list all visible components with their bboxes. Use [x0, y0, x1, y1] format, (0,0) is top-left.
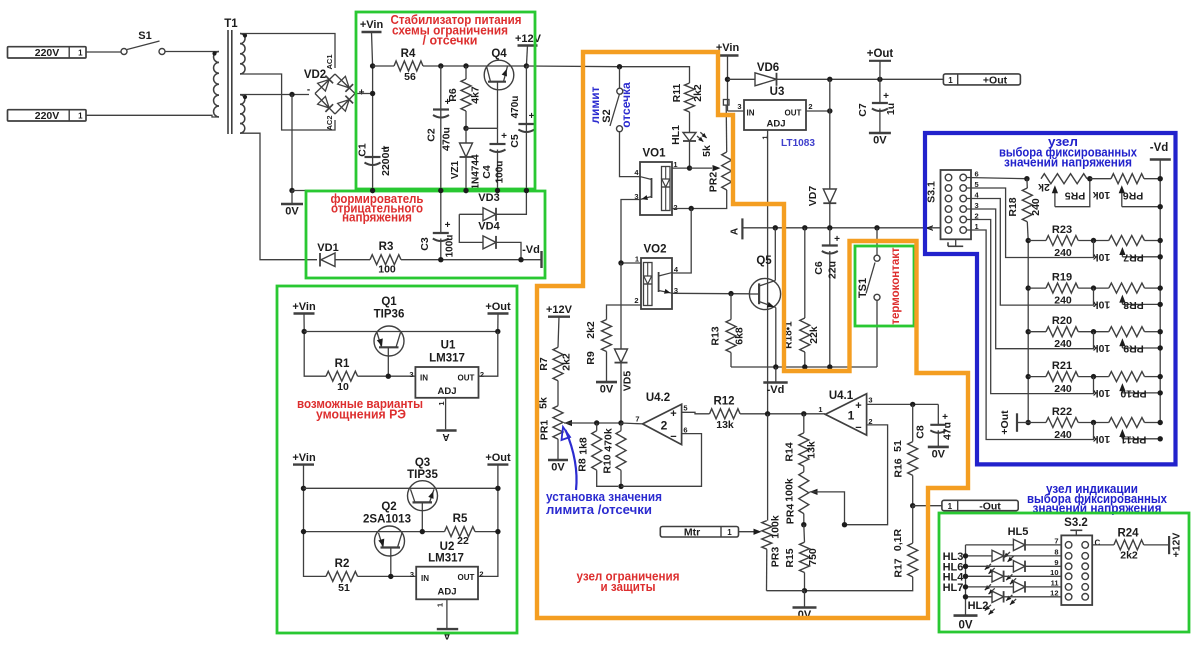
connector Mtr	[660, 527, 738, 538]
node: ADJ/PR3/R12	[765, 411, 770, 416]
svg-text:R8: R8	[577, 458, 589, 472]
svg-text:+12V: +12V	[515, 33, 542, 45]
svg-text:LT1083: LT1083	[781, 137, 815, 149]
svg-text:1: 1	[848, 409, 855, 423]
wire: T1 sec2 bottom down to VD1 line	[240, 133, 317, 260]
svg-text:VD3: VD3	[478, 192, 499, 204]
LED HL1	[689, 112, 691, 133]
net A (U2 ADJ)	[437, 628, 458, 630]
transistor Q1 TIP36	[374, 326, 404, 356]
node: R22 left	[1026, 420, 1031, 425]
svg-text:VD5: VD5	[622, 371, 634, 392]
regulator U1 LM317	[415, 367, 478, 398]
wire: T1 sec2 top to bridge minus	[240, 94, 309, 96]
svg-text:C7: C7	[857, 103, 869, 117]
svg-text:+12V: +12V	[546, 304, 573, 316]
svg-text:100u: 100u	[445, 235, 456, 258]
svg-text:R20: R20	[1052, 315, 1072, 327]
wire: U3 ADJ long vertical	[767, 130, 769, 414]
region outline: green box B (формирователь отрицательного напряжения)	[306, 191, 545, 278]
wire: C2 branch down	[440, 66, 442, 191]
svg-text:VD1: VD1	[317, 242, 338, 254]
svg-text:S1: S1	[138, 30, 151, 42]
svg-text:R3: R3	[379, 241, 394, 253]
svg-text:R18: R18	[1007, 197, 1019, 216]
wire: main rail y66 R4 to +12V stub	[373, 65, 394, 67]
node: R6 top	[463, 63, 468, 68]
LED HL4	[966, 575, 993, 577]
wire: VD3 anode down to VD4	[459, 214, 483, 242]
resistor R15 750	[803, 525, 806, 543]
svg-text:10k: 10k	[1093, 342, 1111, 354]
wire: wiper node to U4.2 out	[621, 422, 643, 425]
svg-text:1k8: 1k8	[578, 437, 590, 455]
node: pin3/R16	[910, 402, 915, 407]
node: C1/0V	[370, 188, 375, 193]
svg-text:C4: C4	[481, 165, 493, 179]
resistor R8 1k8	[596, 423, 598, 431]
svg-text:ADJ: ADJ	[766, 119, 785, 130]
net +Out (blue box)	[1017, 422, 1028, 424]
potentiometer PR4 100k	[803, 466, 805, 472]
wire: VD1 to R3	[335, 259, 370, 261]
potentiometer PR2 5k	[723, 100, 729, 106]
svg-text:PR9: PR9	[1123, 343, 1144, 355]
resistor R17 0,1R	[912, 506, 914, 543]
svg-text:C1: C1	[357, 143, 369, 157]
svg-text:OUT: OUT	[458, 374, 475, 383]
svg-text:PR11: PR11	[1120, 434, 1146, 446]
svg-text:8: 8	[1054, 548, 1058, 557]
transistor Q4	[484, 60, 514, 90]
node: PR10 wiper bus	[1158, 390, 1163, 395]
wire: U2 ADJ stub	[446, 599, 448, 628]
svg-text:A: A	[442, 431, 449, 442]
svg-text:R5: R5	[453, 513, 468, 525]
wire: main rail to S2/R11	[526, 65, 619, 68]
svg-text:10k: 10k	[1093, 251, 1111, 263]
node: PR9 wiper bus	[1158, 345, 1163, 350]
svg-text:умощнения РЭ: умощнения РЭ	[316, 407, 406, 422]
node: VO1.2/PR2 bottom	[689, 206, 694, 211]
node: R21 left	[1026, 374, 1031, 379]
resistor R23 240	[1028, 240, 1046, 242]
wire: +Vin down through R4 node to 0V	[372, 32, 373, 191]
svg-text:220V: 220V	[35, 110, 60, 122]
node: junction sec2/0V	[289, 92, 294, 97]
resistor R5 22	[445, 527, 476, 537]
svg-text:22k: 22k	[808, 326, 820, 344]
connector +Out	[943, 74, 1020, 85]
svg-text:C: C	[1095, 539, 1101, 548]
svg-text:+: +	[834, 234, 840, 245]
svg-text:VD4: VD4	[478, 221, 500, 233]
svg-text:0,1R: 0,1R	[892, 528, 904, 551]
zener VZ1 1N4744	[465, 128, 467, 143]
wire: VO1 pin3 down to VO2 pin1 and VD5	[621, 200, 641, 264]
op-amp U4.1	[825, 394, 866, 435]
connector X2 220V (bottom)	[8, 110, 87, 121]
wire: U3 OUT to riser	[806, 110, 830, 112]
ground 0V (R9)	[606, 352, 608, 383]
svg-text:R4: R4	[401, 48, 416, 60]
wire: bridge + to C1 rail	[355, 93, 373, 95]
svg-text:LM317: LM317	[429, 353, 465, 365]
transistor Q3 TIP35	[408, 481, 438, 511]
svg-text:PR3: PR3	[770, 547, 782, 568]
wire: R20 to PR9	[1078, 331, 1109, 333]
wire: Q5 collector up	[774, 228, 776, 281]
node: +Out/top wire Q1	[495, 329, 500, 334]
svg-text:3: 3	[737, 102, 741, 111]
svg-text:1: 1	[818, 405, 822, 414]
svg-text:2k: 2k	[1038, 181, 1050, 193]
node: C3 / -Vd rail	[438, 257, 443, 262]
svg-text:+: +	[942, 412, 948, 423]
wire: base node horizontal	[466, 127, 498, 129]
wire: +Out stub down	[497, 314, 499, 332]
wire: junction down to 0V ground	[291, 95, 293, 191]
svg-text:U4.2: U4.2	[646, 392, 670, 404]
svg-text:R13: R13	[710, 326, 722, 345]
wire: R22 to PR11	[1078, 422, 1109, 424]
svg-text:100u: 100u	[495, 161, 506, 184]
svg-text:100: 100	[378, 264, 396, 276]
region outline: orange box (узел ограничения и защиты)	[537, 52, 968, 618]
ground 0V (PR1)	[557, 439, 559, 460]
node: R18*1/-Vd	[802, 364, 807, 369]
svg-text:PR10: PR10	[1120, 388, 1146, 400]
svg-text:S3.2: S3.2	[1064, 517, 1088, 529]
node: R23/PR7 mid	[1091, 238, 1096, 243]
svg-text:Q4: Q4	[491, 48, 507, 60]
svg-text:PR1: PR1	[539, 420, 551, 441]
region outline: green box A (Стабилизатор питания)	[356, 12, 535, 189]
potentiometer PR9 10k	[1109, 327, 1145, 337]
S3.1 shell mark	[955, 239, 957, 246]
svg-text:C8: C8	[915, 425, 927, 439]
resistor R11 2k2	[685, 83, 695, 112]
svg-text:1: 1	[78, 112, 83, 121]
svg-text:0V: 0V	[932, 448, 946, 460]
svg-text:−: −	[855, 422, 861, 434]
svg-text:-: -	[307, 85, 310, 96]
svg-text:R12: R12	[713, 396, 734, 408]
capacitor C6 22u	[829, 228, 831, 246]
LED HL6	[966, 565, 1014, 567]
resistor R19 240	[1028, 287, 1046, 289]
svg-text:0V: 0V	[600, 384, 614, 396]
svg-text:IN: IN	[747, 109, 755, 118]
node: R23 right bus	[1158, 238, 1163, 243]
transistor Q2 2SA1013	[375, 526, 405, 556]
node: +Vin/top wire Q1	[302, 329, 307, 334]
svg-text:+12V: +12V	[1171, 533, 1183, 558]
node: R14 node	[801, 411, 806, 416]
svg-text:C2: C2	[426, 128, 438, 142]
resistor R10 470k	[620, 423, 622, 431]
wire: X2 to T1 primary bottom	[86, 115, 219, 117]
svg-text:+: +	[883, 91, 889, 102]
svg-text:-Vd: -Vd	[522, 244, 540, 256]
wire: +Vin left rail Q3/Q2/R2	[304, 465, 327, 577]
ground 0V (C7)	[869, 132, 891, 135]
svg-text:2k2: 2k2	[1120, 550, 1138, 562]
svg-text:3: 3	[410, 570, 414, 579]
svg-text:+Vin: +Vin	[292, 452, 316, 464]
svg-text:10k: 10k	[1093, 189, 1111, 201]
svg-text:3: 3	[674, 286, 678, 295]
svg-text:A: A	[730, 228, 741, 235]
wire: X1 to S1	[87, 51, 122, 53]
wire: U1 ADJ stub to A	[445, 398, 447, 430]
svg-text:TIP35: TIP35	[407, 469, 438, 481]
node: +Out marker	[877, 77, 882, 82]
svg-text:R6: R6	[447, 88, 459, 102]
svg-text:2k2: 2k2	[561, 353, 573, 371]
node: +12V / rail	[524, 63, 529, 68]
svg-text:IN: IN	[420, 374, 428, 383]
node: Q1 base / R1	[386, 374, 391, 379]
svg-text:R21: R21	[1052, 360, 1072, 372]
wire: row1 to PR6	[1090, 178, 1111, 180]
svg-text:+Vin: +Vin	[360, 19, 384, 31]
potentiometer PR3 100k	[767, 414, 769, 521]
region outline: green box TS1 (термоконтакт)	[855, 246, 914, 326]
node: S2 branch	[617, 64, 622, 69]
svg-text:+: +	[855, 400, 861, 412]
svg-text:7: 7	[1054, 537, 1058, 546]
svg-text:HL5: HL5	[1008, 526, 1029, 538]
node: C6/-Vd	[827, 364, 832, 369]
svg-text:R11: R11	[671, 84, 683, 103]
resistor R24 2k2	[1092, 544, 1114, 546]
LED HL7	[966, 586, 1014, 588]
resistor R12 13k	[710, 409, 741, 419]
svg-text:R1: R1	[335, 358, 350, 370]
svg-text:TIP36: TIP36	[374, 309, 405, 321]
potentiometer PR10 10k	[1109, 372, 1145, 382]
wire: C5 branch	[525, 66, 527, 191]
connector S3.2	[1061, 535, 1092, 605]
net +12V (box D)	[1144, 544, 1169, 546]
region outline: blue box (узел выбора фиксированных значений напряжения)	[925, 133, 1176, 464]
svg-text:-Vd: -Vd	[767, 384, 785, 396]
capacitor C2 470u	[433, 108, 449, 110]
node: Q5 emitter/-Vd	[773, 364, 778, 369]
diode VD7	[829, 111, 831, 189]
potentiometer PR6 10k	[1111, 174, 1144, 184]
node: Q3 base / Q2 row	[420, 529, 425, 534]
node: HL1/VO1.1/PR2 wiper	[687, 165, 692, 170]
LED HL2	[966, 596, 993, 598]
svg-text:100k: 100k	[784, 478, 796, 502]
svg-text:220V: 220V	[35, 47, 60, 59]
svg-text:VD2: VD2	[304, 69, 326, 81]
svg-text:47u: 47u	[942, 422, 954, 440]
node: OUT riser	[827, 77, 832, 82]
wire: S3.1 pin3 staircase	[967, 209, 1094, 349]
wire: R5 to +Out rail	[475, 531, 498, 533]
connector S3.1	[941, 170, 972, 239]
node: C2/0V	[438, 188, 443, 193]
svg-text:10: 10	[337, 381, 349, 393]
wire: Q5 emitter down	[775, 308, 777, 368]
svg-text:C5: C5	[509, 134, 521, 148]
svg-text:+Out: +Out	[485, 301, 511, 313]
net A bar (left)	[741, 218, 743, 239]
connector -Out	[942, 500, 1018, 510]
svg-text:R14: R14	[784, 442, 796, 461]
svg-text:PR8: PR8	[1123, 299, 1144, 311]
svg-text:1: 1	[948, 76, 953, 85]
svg-text:100k: 100k	[770, 515, 782, 539]
optocoupler VO2	[641, 258, 672, 309]
svg-text:11: 11	[1051, 579, 1059, 588]
svg-text:470u: 470u	[441, 127, 453, 151]
net A (U1 ADJ)	[436, 429, 456, 431]
potentiometer PR8 10k	[1109, 283, 1145, 293]
wire: R12 to U4.1	[740, 413, 825, 415]
svg-text:R15: R15	[784, 548, 796, 567]
optocoupler VO1	[640, 162, 672, 215]
svg-text:S3.1: S3.1	[926, 181, 938, 203]
node: bridge+/C1	[370, 91, 375, 96]
resistor R22 240	[1028, 422, 1046, 424]
svg-text:R16: R16	[893, 458, 905, 477]
svg-text:10k: 10k	[1093, 299, 1111, 311]
resistor R14 13k	[803, 414, 805, 433]
resistor R9 2k2	[602, 320, 612, 352]
wire: VO1 pin2	[672, 208, 691, 210]
svg-text:R7: R7	[538, 357, 550, 371]
node: +Out/top wire Q3	[495, 486, 500, 491]
svg-text:HL2: HL2	[968, 600, 989, 612]
node: +Vin/Q2 row	[301, 529, 306, 534]
svg-text:R10: R10	[602, 454, 614, 473]
node: PR4 wiper/pin2 loop	[842, 522, 847, 527]
svg-text:2: 2	[479, 570, 483, 579]
node: +Vin/R4	[370, 63, 375, 68]
node: A/Q5 collector	[773, 225, 778, 230]
svg-text:1: 1	[436, 603, 445, 607]
diode VD6	[728, 78, 756, 80]
node: R20 left	[1026, 329, 1031, 334]
svg-text:22: 22	[457, 535, 469, 547]
wire: U4.2 pin6 feedback loop	[621, 434, 702, 487]
svg-text:S2: S2	[601, 109, 613, 122]
transistor Q5	[749, 278, 780, 309]
node: PR11 wiper bus	[1158, 436, 1163, 441]
capacitor C8 47u	[937, 404, 939, 424]
wire: PR2 wiper	[690, 167, 713, 169]
ground 0V (C8)	[928, 446, 949, 449]
wire: R1 to U1 IN	[358, 375, 416, 377]
node: +Vin/top wire Q3	[301, 486, 306, 491]
svg-text:C3: C3	[419, 237, 431, 251]
svg-text:Q1: Q1	[381, 296, 397, 308]
wire: +12V stub down to rail	[526, 46, 527, 67]
svg-text:VZ1: VZ1	[450, 160, 461, 179]
wire: T1 sec1 bottom to bridge AC2	[240, 74, 335, 130]
node: R16/R17/-Out	[910, 503, 915, 508]
node: PR7 wiper bus	[1158, 254, 1163, 259]
svg-text:/ отсечки: / отсечки	[423, 34, 478, 48]
potentiometer PR11 10k	[1109, 418, 1145, 428]
svg-text:и защиты: и защиты	[601, 580, 656, 594]
LED HL3	[966, 555, 993, 557]
wire: PR1 wiper line	[564, 420, 572, 426]
svg-text:HL1: HL1	[670, 125, 682, 145]
node: C5/0V	[524, 188, 529, 193]
node: VD6 branch	[725, 77, 730, 82]
svg-text:R24: R24	[1117, 528, 1139, 540]
wire: U1 OUT to +Out	[479, 332, 498, 377]
ground 0V (transformer)	[291, 191, 293, 205]
svg-text:C6: C6	[813, 261, 825, 275]
node: R19/PR8 mid	[1091, 285, 1096, 290]
svg-text:1: 1	[635, 255, 639, 264]
svg-text:VO2: VO2	[643, 244, 666, 256]
svg-text:LM317: LM317	[428, 553, 464, 565]
svg-text:лимита /отсечки: лимита /отсечки	[546, 502, 652, 517]
wire: VO1 pin1 to HL1 node	[672, 167, 690, 169]
thermal switch TS1	[876, 228, 878, 255]
capacitor C3 100u	[440, 191, 442, 234]
svg-text:5k: 5k	[701, 145, 713, 157]
svg-text:7: 7	[635, 415, 639, 424]
wire: PR4 wiper	[810, 489, 818, 495]
wire: S3.1 pin2 staircase	[967, 220, 1094, 394]
svg-text:0V: 0V	[873, 135, 887, 147]
node: VO2 pin1 junction	[618, 260, 623, 265]
svg-text:750: 750	[807, 548, 819, 566]
node: redraw junction dots over outlines	[370, 188, 375, 193]
svg-text:R9: R9	[585, 351, 597, 365]
svg-text:13k: 13k	[716, 419, 734, 431]
switch S1	[121, 49, 127, 55]
node: R19 left	[1026, 285, 1031, 290]
node: PR6 wiper/bus	[1158, 204, 1163, 209]
svg-text:240: 240	[1030, 198, 1042, 216]
wire: 0V rail under green box A	[292, 190, 526, 192]
svg-text:51: 51	[892, 440, 904, 452]
wire: +Out vertical rail	[478, 465, 498, 577]
svg-text:VO1: VO1	[642, 148, 666, 160]
svg-text:ADJ: ADJ	[437, 587, 456, 598]
node: R15 top	[801, 522, 806, 527]
wire: U4.1 pin2 loop	[845, 425, 888, 525]
svg-text:1N4744: 1N4744	[471, 154, 482, 189]
svg-text:10k: 10k	[1093, 433, 1111, 445]
node: R8/R10 feedback	[618, 484, 623, 489]
svg-text:термоконтакт: термоконтакт	[890, 247, 902, 325]
wire: +Out top rail	[777, 78, 944, 80]
svg-text:13k: 13k	[806, 441, 818, 459]
svg-text:+Out: +Out	[485, 452, 511, 464]
svg-text:1: 1	[78, 49, 83, 58]
node: A/R18*1	[802, 225, 807, 230]
svg-text:PR5: PR5	[1065, 190, 1086, 202]
node: R23 left	[1026, 238, 1031, 243]
resistor R1 10	[326, 371, 358, 381]
region outline: green box C (возможные варианты умощнения РЭ)	[277, 286, 517, 633]
wire: to -Out connector	[913, 505, 942, 507]
node: R21 right bus	[1158, 374, 1163, 379]
svg-text:+Vin: +Vin	[292, 301, 316, 313]
potentiometer PR1 5k	[557, 381, 559, 406]
wire: top rail Q3	[304, 487, 498, 489]
